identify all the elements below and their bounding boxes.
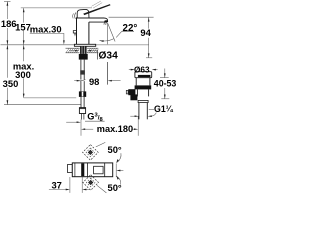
svg-text:max.30: max.30	[30, 24, 62, 35]
svg-text:186: 186	[1, 18, 17, 29]
pop-up rod fitting	[128, 89, 135, 95]
svg-text:40-53: 40-53	[154, 79, 176, 89]
hose fitting upper	[79, 91, 86, 97]
label 50 degrees top	[96, 142, 106, 147]
svg-text:50°: 50°	[108, 182, 122, 193]
dimension 157	[21, 8, 92, 45]
svg-text:22°: 22°	[123, 23, 138, 34]
dimension 22 degrees	[107, 23, 109, 44]
hose tube	[80, 70, 85, 74]
mounting nut	[79, 54, 88, 60]
faucet spout	[89, 18, 108, 22]
counter slab with hatching	[66, 48, 99, 53]
left nub (economy symbol)	[73, 31, 76, 33]
supply hose	[80, 60, 82, 92]
label 50 degrees bottom	[97, 185, 107, 193]
svg-text:94: 94	[140, 27, 151, 38]
waste flange	[135, 72, 152, 78]
hose tail	[80, 113, 82, 119]
svg-text:37: 37	[51, 180, 61, 191]
swing arc top	[117, 153, 121, 162]
svg-text:157: 157	[15, 21, 31, 32]
swing arc bottom	[117, 177, 121, 185]
extension line hose axis	[80, 120, 82, 136]
dimension 350	[4, 45, 81, 105]
hose break jog	[80, 80, 86, 82]
svg-text:Ø63: Ø63	[134, 66, 150, 75]
handle swing diamond bottom	[83, 175, 99, 191]
dimension max.30	[30, 33, 64, 40]
dimension 98	[74, 80, 77, 82]
svg-text:50°: 50°	[108, 144, 122, 155]
plan view body	[72, 163, 112, 177]
extension line waste pipe	[137, 116, 139, 136]
aerator	[104, 20, 108, 22]
faucet body	[77, 18, 90, 44]
base plate	[74, 44, 95, 46]
svg-text:Ø34: Ø34	[99, 51, 119, 62]
plan view spout cap	[68, 164, 73, 172]
dimension Ø34	[69, 50, 76, 52]
svg-text:300: 300	[15, 69, 31, 80]
dimension 40-53	[160, 69, 169, 99]
svg-text:98: 98	[89, 76, 99, 87]
waste body	[135, 78, 137, 86]
waste mid tube	[136, 89, 138, 96]
dimension O63	[129, 69, 132, 71]
plan view joint bar	[81, 163, 84, 176]
waste transition bar	[138, 100, 148, 102]
waste locknut	[135, 85, 152, 89]
dimension max.180	[84, 128, 93, 130]
svg-text:max.180: max.180	[97, 124, 133, 134]
svg-text:G1¼: G1¼	[154, 104, 174, 114]
waste tailpipe	[138, 103, 140, 120]
threaded shank	[80, 46, 87, 54]
deck reference line left	[1, 44, 75, 46]
dimension 94	[109, 17, 154, 58]
lever raised phantom	[92, 1, 101, 6]
lever swing arcs	[75, 13, 76, 19]
handle knob	[77, 9, 89, 18]
dimension 186	[4, 1, 11, 44]
hose end fitting G3/8	[79, 108, 85, 114]
dimension 37	[69, 177, 71, 193]
dimension max.300	[24, 45, 76, 98]
deck reference line right	[96, 44, 149, 46]
label G3/8	[85, 120, 105, 122]
extension line plan right	[115, 164, 117, 178]
handle lever	[83, 4, 110, 15]
plan view handle block	[86, 163, 88, 177]
handle swing diamond top	[83, 145, 99, 161]
label G1 1/4	[149, 108, 154, 110]
